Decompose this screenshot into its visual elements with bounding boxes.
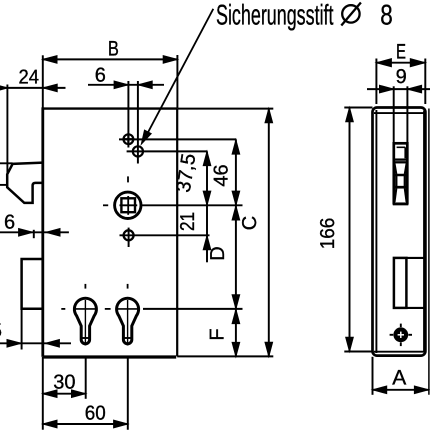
- svg-text:6: 6: [95, 64, 106, 86]
- extension centre line stift: [137, 81, 139, 164]
- label Sicherungsstift: [216, 0, 334, 32]
- svg-text:46: 46: [211, 164, 233, 186]
- svg-text:6: 6: [4, 212, 15, 234]
- extension centre line pin: [127, 81, 129, 148]
- dimension A: [373, 109, 429, 395]
- cylinder centre line horizontal: [61, 308, 242, 310]
- svg-text:5: 5: [0, 320, 2, 342]
- dimension B: [43, 38, 178, 108]
- extension line case left edge below: [42, 357, 44, 430]
- svg-text:21: 21: [177, 212, 199, 231]
- nut centre dashes: [103, 176, 128, 205]
- latch auxiliary thin lines: [0, 85, 13, 185]
- dimension 37,5 and 21 line: [173, 151, 211, 262]
- dimension 30: [43, 371, 86, 397]
- bolt stack side view: [393, 142, 409, 205]
- extension line stift centre to 37,5: [127, 150, 208, 152]
- dimension 60: [43, 402, 128, 427]
- extension line nut centre: [142, 204, 243, 206]
- pin cross circle: [123, 133, 135, 145]
- svg-text:C: C: [239, 216, 261, 230]
- svg-text:B: B: [108, 38, 119, 61]
- screw head side view: [390, 324, 412, 347]
- dimension E: [376, 40, 425, 104]
- centre line cylinder right below: [127, 357, 129, 430]
- extension line case top right: [177, 108, 273, 110]
- extension line small hole centre: [120, 234, 210, 236]
- extension line bolt front edge: [21, 309, 23, 350]
- dimension 6 top: [88, 64, 164, 88]
- extension line pin centre to 46: [119, 138, 236, 140]
- side view inner wall lines: [374, 110, 425, 353]
- svg-text:A: A: [392, 367, 406, 390]
- svg-text:9: 9: [396, 66, 407, 88]
- centre line cylinder left below: [85, 357, 87, 399]
- dimension line (cut label) at bolt: [0, 340, 71, 348]
- cylinder slot side view: [394, 258, 426, 308]
- profile cylinder hole right: [116, 284, 140, 346]
- dimension 9: [367, 66, 430, 93]
- svg-text:24: 24: [19, 66, 40, 88]
- label 8: [380, 0, 393, 32]
- svg-text:F: F: [207, 328, 229, 340]
- lock case front view outline: [43, 107, 177, 357]
- dimension 166: [317, 108, 373, 352]
- Sicherungsstift circle: [133, 146, 143, 156]
- svg-text:30: 30: [53, 371, 75, 393]
- dimension 24: [0, 66, 65, 91]
- dimension 6 lower left: [0, 212, 69, 239]
- svg-text:8: 8: [380, 0, 393, 32]
- dimension C: [239, 109, 273, 357]
- partial digit 5 at left edge: [0, 320, 2, 342]
- profile cylinder hole left: [74, 284, 98, 346]
- svg-text:Sicherungsstift: Sicherungsstift: [216, 0, 334, 32]
- extension lines 9 down: [394, 86, 408, 142]
- small hole below nut: [124, 228, 134, 247]
- handle follower nut: [115, 192, 141, 218]
- diameter symbol: [341, 3, 361, 26]
- svg-text:60: 60: [85, 402, 106, 424]
- leader line Sicherungsstift: [141, 9, 213, 144]
- svg-text:E: E: [396, 40, 406, 63]
- bolt (Riegel) protrusion front view: [22, 259, 43, 309]
- svg-text:D: D: [207, 246, 229, 260]
- side view case outline: [373, 108, 426, 356]
- dimension 46 D F line: [207, 139, 240, 356]
- svg-text:166: 166: [317, 218, 339, 250]
- latch bolt (Falle) front view: [7, 163, 43, 203]
- extension line case bottom right: [177, 355, 273, 357]
